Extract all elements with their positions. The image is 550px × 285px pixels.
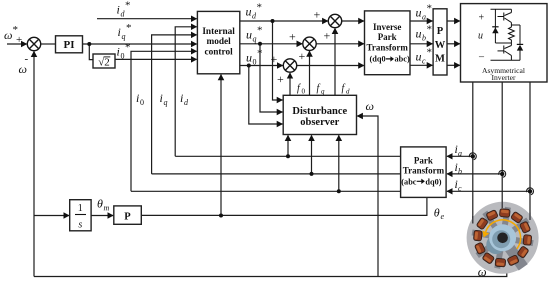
svg-text:u: u <box>246 51 252 65</box>
svg-text:θ: θ <box>434 206 440 220</box>
svg-text:*: * <box>427 47 433 59</box>
svg-text:u: u <box>246 5 252 19</box>
svg-text:b: b <box>422 34 426 43</box>
svg-text:+: + <box>16 34 22 46</box>
svg-text:+: + <box>277 72 284 86</box>
svg-text:f: f <box>342 83 346 94</box>
svg-text:ω: ω <box>4 28 12 42</box>
svg-text:q: q <box>122 32 126 41</box>
svg-text:Transform: Transform <box>367 42 409 52</box>
svg-text:d: d <box>346 88 350 96</box>
svg-text:u: u <box>416 27 422 41</box>
svg-text:q: q <box>253 35 257 44</box>
svg-text:c: c <box>422 57 426 66</box>
svg-text:s: s <box>78 220 82 231</box>
svg-text:P: P <box>437 26 444 37</box>
svg-text:*: * <box>427 3 433 15</box>
svg-text:M: M <box>435 54 445 65</box>
svg-text:P: P <box>124 212 131 223</box>
svg-text:i: i <box>180 91 183 105</box>
svg-text:Internal: Internal <box>202 27 235 37</box>
svg-text:q: q <box>164 98 168 107</box>
svg-text:u: u <box>478 31 483 42</box>
svg-text:observer: observer <box>300 117 339 128</box>
svg-text:W: W <box>435 40 446 51</box>
svg-text:i: i <box>136 91 139 105</box>
svg-text:a: a <box>458 149 462 158</box>
svg-text:*: * <box>257 48 263 60</box>
svg-text:Inverse: Inverse <box>373 22 402 32</box>
svg-text:*: * <box>257 25 263 37</box>
svg-text:f: f <box>297 83 301 94</box>
svg-text:–: – <box>478 52 485 63</box>
svg-text:i: i <box>117 45 120 59</box>
svg-text:q: q <box>321 88 325 96</box>
svg-text:b: b <box>458 167 462 176</box>
svg-text:*: * <box>257 2 263 14</box>
svg-text:+: + <box>324 29 331 43</box>
svg-text:d: d <box>184 98 189 107</box>
svg-text:PI: PI <box>64 39 75 51</box>
svg-text:*: * <box>126 22 132 34</box>
svg-text:i: i <box>117 3 120 17</box>
svg-text:control: control <box>204 47 233 57</box>
svg-text:+: + <box>271 52 278 66</box>
svg-text:Inverter: Inverter <box>491 73 516 82</box>
svg-text:Park: Park <box>414 156 433 166</box>
svg-text:i: i <box>118 25 121 39</box>
svg-text:(dq0: (dq0 <box>369 55 385 64</box>
svg-text:f: f <box>317 83 321 94</box>
svg-text:√2: √2 <box>98 57 110 69</box>
svg-text:e: e <box>441 212 445 221</box>
svg-text:0: 0 <box>140 98 144 107</box>
svg-text:Disturbance: Disturbance <box>292 106 347 117</box>
svg-text:Transform: Transform <box>403 166 445 176</box>
svg-text:ω: ω <box>19 62 27 76</box>
svg-text:c: c <box>458 184 462 193</box>
svg-text:i: i <box>160 91 163 105</box>
svg-text:(abc: (abc <box>401 178 417 187</box>
svg-text:*: * <box>125 42 131 54</box>
svg-text:0: 0 <box>121 52 125 61</box>
svg-text:+: + <box>314 8 321 22</box>
svg-text:+: + <box>299 49 306 63</box>
svg-text:0: 0 <box>302 88 306 96</box>
svg-text:u: u <box>246 28 252 42</box>
svg-text:abc): abc) <box>395 55 410 64</box>
svg-text:u: u <box>416 6 422 20</box>
svg-text:ω: ω <box>366 99 374 113</box>
svg-text:*: * <box>427 24 433 36</box>
svg-text:+: + <box>289 30 296 44</box>
svg-text:u: u <box>416 50 422 64</box>
svg-text:a: a <box>422 13 426 22</box>
svg-text:dq0): dq0) <box>425 178 441 187</box>
svg-text:θ: θ <box>97 197 103 211</box>
svg-text:m: m <box>104 204 110 213</box>
svg-text:0: 0 <box>253 58 257 67</box>
svg-text:Park: Park <box>378 32 397 42</box>
svg-text:*: * <box>125 0 131 12</box>
svg-text:1: 1 <box>78 203 83 214</box>
svg-text:model: model <box>206 37 231 47</box>
svg-text:+: + <box>479 13 485 24</box>
